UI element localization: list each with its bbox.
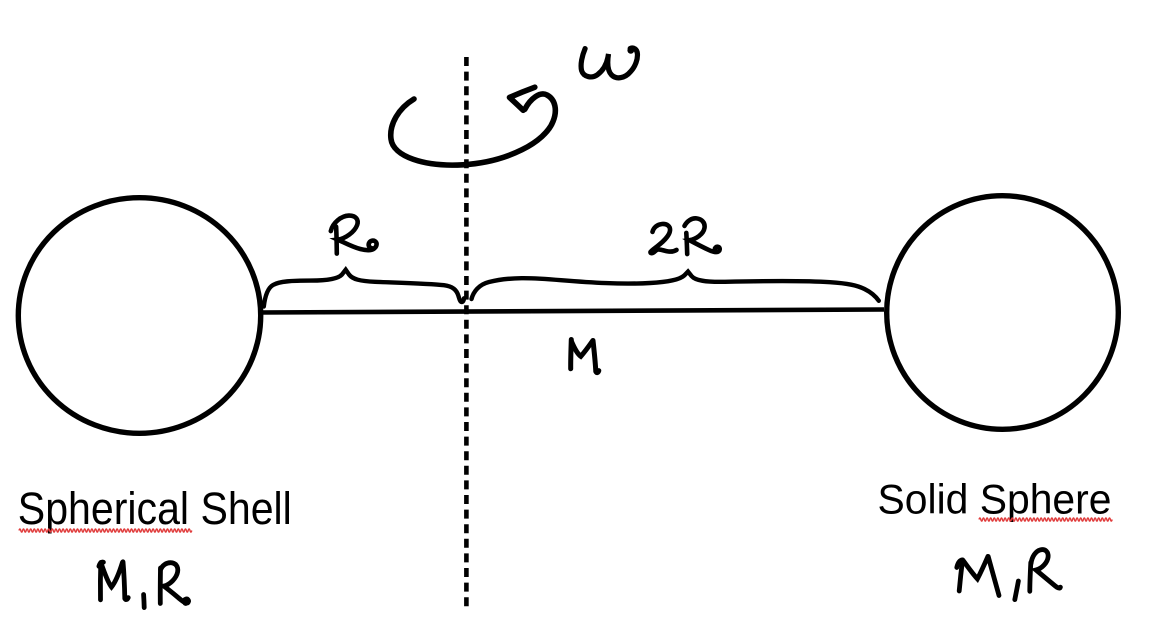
svg-text:Solid Sphere: Solid Sphere [878,476,1112,523]
svg-text:Spherical Shell: Spherical Shell [18,483,292,534]
